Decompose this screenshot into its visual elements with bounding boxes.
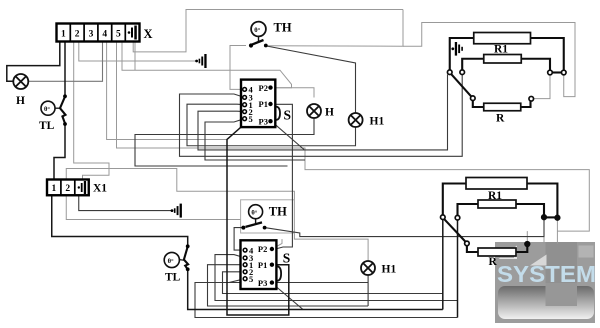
svg-text:P2: P2 [258,244,267,254]
svg-text:P3: P3 [258,278,267,288]
svg-text:P3: P3 [259,116,268,126]
svg-text:θ°: θ° [251,210,257,217]
svg-text:S: S [283,251,291,266]
svg-text:X1: X1 [93,183,107,195]
svg-text:R: R [489,256,498,268]
svg-text:TL: TL [165,272,181,284]
svg-text:θ°: θ° [44,106,50,113]
svg-text:θ°: θ° [168,258,174,265]
svg-text:5: 5 [116,30,121,40]
svg-text:H: H [16,95,25,107]
svg-text:2: 2 [75,30,80,40]
svg-text:R1: R1 [494,44,508,56]
svg-text:TH: TH [269,205,287,219]
svg-text:5: 5 [249,274,253,284]
svg-text:5: 5 [249,114,253,124]
svg-text:θ°: θ° [254,27,260,34]
svg-text:H1: H1 [382,264,397,276]
svg-text:SYSTEM: SYSTEM [497,261,596,287]
svg-text:1: 1 [52,184,57,194]
svg-text:TH: TH [274,21,292,35]
svg-text:S: S [284,108,292,123]
svg-text:TL: TL [39,120,55,132]
svg-text:4: 4 [102,30,107,40]
svg-text:R1: R1 [488,190,502,202]
svg-text:P1: P1 [258,260,267,270]
svg-text:3: 3 [89,30,94,40]
svg-text:P2: P2 [259,83,268,93]
svg-text:R: R [496,113,505,125]
svg-text:H: H [325,107,334,119]
svg-text:2: 2 [65,184,70,194]
svg-text:H1: H1 [370,116,385,128]
svg-text:P1: P1 [259,99,268,109]
svg-text:X: X [144,27,153,41]
svg-text:1: 1 [61,30,66,40]
